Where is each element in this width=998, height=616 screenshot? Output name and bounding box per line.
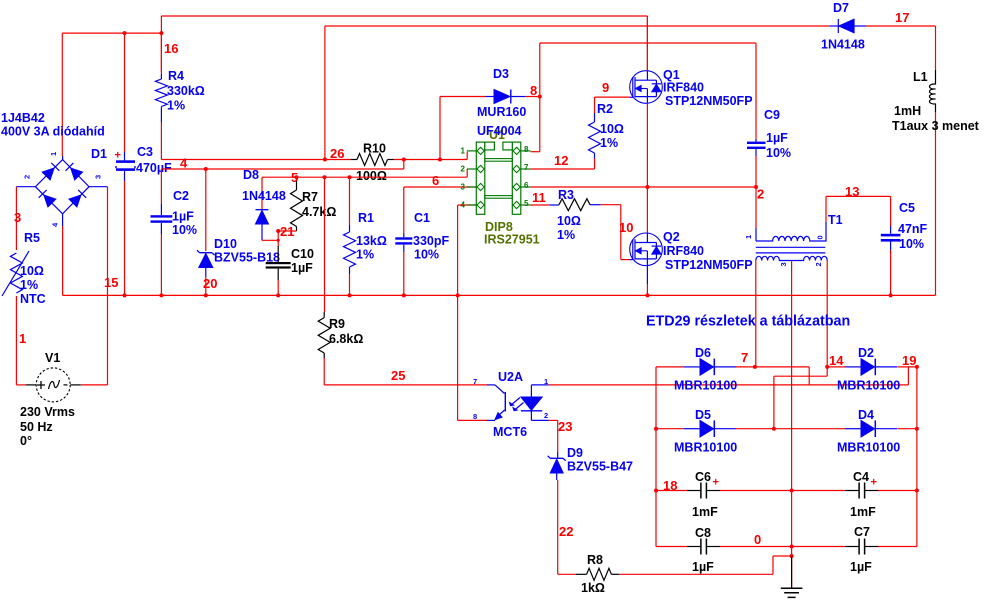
transistor Q1 <box>630 71 663 104</box>
svg-text:C7: C7 <box>854 525 870 539</box>
svg-text:5: 5 <box>524 199 529 208</box>
svg-text:R8: R8 <box>587 553 603 567</box>
svg-text:230 Vrms: 230 Vrms <box>20 405 75 419</box>
svg-text:1: 1 <box>544 377 548 386</box>
label D10 <box>214 237 237 251</box>
label D2 <box>858 346 874 360</box>
tolerance 10% C2 <box>172 223 197 237</box>
wire node 2 half-bridge output <box>531 185 765 202</box>
diode D2 <box>827 359 919 376</box>
wire T1 center tap to node 0 <box>791 261 793 588</box>
svg-text:MBR10100: MBR10100 <box>674 379 737 393</box>
svg-text:BZV55-B47: BZV55-B47 <box>567 460 633 474</box>
capacitor C8 <box>656 539 794 555</box>
wire node 19 from opto pin 1 to D2 cathode <box>549 367 909 385</box>
svg-text:D4: D4 <box>858 408 874 422</box>
svg-text:1: 1 <box>461 147 466 156</box>
svg-text:13: 13 <box>845 184 859 199</box>
value UF4004 <box>477 124 522 138</box>
label R1 <box>358 211 374 225</box>
label NTC <box>20 292 46 306</box>
svg-text:9: 9 <box>602 80 609 95</box>
tolerance 10% C5 <box>899 237 924 251</box>
label C8 <box>695 526 711 540</box>
polarity + for C4 <box>871 477 877 489</box>
svg-text:330pF: 330pF <box>413 234 449 248</box>
svg-text:Q2: Q2 <box>663 230 680 244</box>
value 330kΩ <box>167 84 205 98</box>
svg-text:D9: D9 <box>567 446 583 460</box>
label R9 <box>329 317 345 331</box>
capacitor C7 <box>792 539 917 555</box>
svg-text:STP12NM50FP: STP12NM50FP <box>665 258 753 272</box>
label Q1 <box>663 68 680 82</box>
label R10 <box>363 142 386 156</box>
svg-text:7: 7 <box>473 377 477 386</box>
label C7 <box>854 525 870 539</box>
diode D4 <box>845 420 919 437</box>
wire T1 secondary right to node 14 <box>825 261 829 369</box>
node 14 <box>829 353 844 368</box>
value 330pF <box>413 234 449 248</box>
label C10 <box>291 247 314 261</box>
bridge rectifier D1 <box>16 156 107 226</box>
label D4 <box>858 408 874 422</box>
svg-text:12: 12 <box>554 153 568 168</box>
label U2A <box>498 370 523 384</box>
diode D6 <box>656 359 755 376</box>
svg-text:L1: L1 <box>913 70 928 84</box>
value 470µF <box>136 161 172 175</box>
svg-text:1: 1 <box>49 152 58 156</box>
resistor R5 NTC <box>2 251 29 296</box>
DIP8 pin numbers <box>461 145 529 210</box>
label C4 <box>853 470 869 484</box>
node 5 <box>291 170 298 185</box>
svg-text:D5: D5 <box>695 408 711 422</box>
wire node 26 row into DIP pin 1 <box>161 152 467 162</box>
capacitor C2 <box>151 204 173 295</box>
node 10 <box>619 220 633 235</box>
value 1mF C4 <box>850 505 876 519</box>
transformer T1 primary winding <box>756 196 826 241</box>
zener diode D10 <box>197 169 215 295</box>
label Q2 <box>663 230 680 244</box>
transformer T1 secondary windings <box>756 256 827 260</box>
label 400V 3A diodahid <box>1 125 105 139</box>
wire node 15 bottom rail <box>63 226 936 295</box>
label ETD29 reszletek a tablazatban <box>646 314 850 330</box>
tolerance 1% R1 <box>356 248 374 262</box>
wire T1 secondary left to node 7 <box>753 261 757 369</box>
node 6 <box>432 173 439 188</box>
svg-text:0°: 0° <box>20 434 32 448</box>
svg-text:U2A: U2A <box>498 370 523 384</box>
value 13kΩ <box>356 234 387 248</box>
svg-text:IRF840: IRF840 <box>663 244 704 258</box>
wire node 4 to D3 to node 8 <box>440 97 540 160</box>
svg-text:8: 8 <box>524 145 529 154</box>
svg-text:4: 4 <box>461 201 466 210</box>
node 20 <box>203 276 217 291</box>
node 15 <box>104 275 118 290</box>
label R3 <box>558 188 574 202</box>
svg-text:1%: 1% <box>557 228 575 242</box>
value 10Ω R3 <box>557 214 581 228</box>
svg-text:4: 4 <box>180 156 188 171</box>
transistor Q2 <box>630 233 663 266</box>
label IRS27951 <box>484 233 540 247</box>
svg-text:330kΩ: 330kΩ <box>167 84 205 98</box>
svg-text:1%: 1% <box>600 136 618 150</box>
label R2 <box>597 102 613 116</box>
svg-text:47nF: 47nF <box>898 222 928 236</box>
svg-text:1µF: 1µF <box>291 261 313 275</box>
value 1mH <box>894 104 921 118</box>
svg-text:1µF: 1µF <box>766 131 788 145</box>
svg-text:4.7kΩ: 4.7kΩ <box>302 205 336 219</box>
svg-text:C5: C5 <box>899 201 915 215</box>
label D9 <box>567 446 583 460</box>
svg-text:15: 15 <box>104 275 118 290</box>
svg-text:C2: C2 <box>173 189 189 203</box>
svg-text:5: 5 <box>291 170 298 185</box>
svg-text:R7: R7 <box>302 190 318 204</box>
node 11 <box>532 190 546 205</box>
label STP12NM50FP Q1 <box>665 94 753 108</box>
svg-text:3: 3 <box>14 210 21 225</box>
wire node 13 <box>826 184 891 199</box>
capacitor C6 <box>656 483 794 499</box>
wire node 18 left rail <box>654 367 658 547</box>
value 50 Hz <box>20 420 53 434</box>
value 1µF C10 <box>291 261 313 275</box>
capacitor C3 <box>116 33 135 295</box>
value 47nF <box>898 222 928 236</box>
svg-text:C4: C4 <box>853 470 869 484</box>
svg-text:MBR10100: MBR10100 <box>674 441 737 455</box>
label T1aux 3 menet <box>892 119 980 133</box>
node 16 <box>164 41 178 56</box>
svg-text:1µF: 1µF <box>850 560 872 574</box>
node 26 <box>330 146 344 161</box>
svg-text:22: 22 <box>559 524 573 539</box>
svg-text:11: 11 <box>532 190 546 205</box>
svg-text:10Ω: 10Ω <box>20 264 44 278</box>
resistor R7 <box>278 177 302 231</box>
svg-text:16: 16 <box>164 41 178 56</box>
svg-text:1N4148: 1N4148 <box>821 38 865 52</box>
value 4.7kΩ <box>302 205 336 219</box>
label D3 <box>493 67 509 81</box>
svg-text:10%: 10% <box>899 237 924 251</box>
svg-text:2: 2 <box>544 411 548 420</box>
resistor R8 and wire to node 0 <box>558 554 794 580</box>
node 9 <box>602 80 609 95</box>
svg-text:MBR10100: MBR10100 <box>837 441 900 455</box>
value 1µF C9 <box>766 131 788 145</box>
value IRF840 Q2 <box>663 244 704 258</box>
tolerance 1% <box>20 278 38 292</box>
svg-text:8: 8 <box>473 412 477 421</box>
node 1 <box>19 331 26 346</box>
polarity + for C6 <box>713 477 719 489</box>
node 0 <box>754 532 761 547</box>
svg-text:+: + <box>713 477 719 489</box>
wire node 12 pin 7 to R2 <box>531 153 595 169</box>
label C3 <box>137 145 153 159</box>
svg-text:100Ω: 100Ω <box>356 169 387 183</box>
diode D7 <box>830 19 866 33</box>
svg-text:1J4B42: 1J4B42 <box>1 111 45 125</box>
capacitor C5 <box>881 196 901 295</box>
svg-text:1%: 1% <box>356 248 374 262</box>
svg-text:2: 2 <box>461 165 466 174</box>
svg-text:R2: R2 <box>597 102 613 116</box>
svg-text:1: 1 <box>19 331 26 346</box>
svg-text:T1aux 3 menet: T1aux 3 menet <box>892 119 980 133</box>
value MBR10100 D5 <box>674 441 737 455</box>
label STP12NM50FP Q2 <box>665 258 753 272</box>
capacitor C10 <box>266 231 291 295</box>
wire DIP pin 4 down to opto pin 8 <box>458 205 487 420</box>
diode D5 <box>654 420 845 437</box>
wire node 2 to T1 primary <box>755 187 757 241</box>
bridge pin numbers <box>23 152 103 227</box>
value 230 Vrms <box>20 405 75 419</box>
svg-text:R4: R4 <box>168 69 184 83</box>
label R4 <box>168 69 184 83</box>
svg-text:R9: R9 <box>329 317 345 331</box>
tolerance 1% R4 <box>167 99 185 113</box>
svg-text:D8: D8 <box>243 168 259 182</box>
svg-text:NTC: NTC <box>20 292 46 306</box>
tolerance 1% R2 <box>600 136 618 150</box>
svg-text:D3: D3 <box>493 67 509 81</box>
value 10Ω R2 <box>600 122 624 136</box>
svg-text:21: 21 <box>280 224 294 239</box>
svg-text:1%: 1% <box>167 99 185 113</box>
value 10Ω <box>20 264 44 278</box>
svg-text:C3: C3 <box>137 145 153 159</box>
op-amp IC U1 DIP8 body <box>467 142 531 214</box>
value 1mF C6 <box>692 505 718 519</box>
svg-text:10%: 10% <box>172 223 197 237</box>
wire Q1 source to Q2 drain node 2 <box>645 103 649 233</box>
wire node 4 row C2 to R10 right <box>161 160 403 205</box>
value 1µF C7 <box>850 560 872 574</box>
svg-text:6: 6 <box>432 173 439 188</box>
svg-text:3: 3 <box>779 262 788 266</box>
svg-text:2: 2 <box>23 175 32 179</box>
value 100Ω <box>356 169 387 183</box>
label C6 <box>695 470 711 484</box>
transformer pin numbers <box>744 235 825 267</box>
svg-text:1mF: 1mF <box>692 505 718 519</box>
svg-text:400V 3A diódahíd: 400V 3A diódahíd <box>1 125 105 139</box>
svg-text:1N4148: 1N4148 <box>242 189 286 203</box>
optocoupler U2A <box>487 385 549 421</box>
svg-text:IRS27951: IRS27951 <box>484 233 540 247</box>
label C2 <box>173 189 189 203</box>
capacitor C9 <box>747 139 766 187</box>
svg-text:1µF: 1µF <box>692 560 714 574</box>
svg-text:2: 2 <box>757 187 764 202</box>
optocoupler pin numbers <box>473 377 548 421</box>
label DIP8 <box>485 220 513 234</box>
wire node 16 bridge output to R4/C3 <box>62 16 163 156</box>
label D7 <box>833 1 849 15</box>
wire node 14 jog to D5/D4 row <box>772 367 827 431</box>
value IRF840 Q1 <box>663 81 704 95</box>
label R8 <box>587 553 603 567</box>
value 1µF C2 <box>172 210 194 224</box>
value 1kΩ <box>581 581 605 595</box>
label U1 <box>489 128 505 142</box>
ground <box>781 556 803 597</box>
svg-text:20: 20 <box>203 276 217 291</box>
node 19 <box>902 353 916 368</box>
svg-text:MCT6: MCT6 <box>493 425 527 439</box>
svg-text:19: 19 <box>902 353 916 368</box>
junctions on node 15 rail <box>123 293 893 297</box>
capacitor C1 <box>395 187 412 295</box>
resistor R3 and wire to Q2 gate <box>531 199 631 260</box>
svg-text:23: 23 <box>558 419 572 434</box>
svg-text:13kΩ: 13kΩ <box>356 234 387 248</box>
svg-text:8: 8 <box>530 83 537 98</box>
capacitor C4 <box>792 483 917 499</box>
resistor R2 <box>589 97 631 158</box>
polarity + for C3 <box>115 150 121 162</box>
svg-text:7: 7 <box>741 350 748 365</box>
svg-text:17: 17 <box>895 10 909 25</box>
label D5 <box>695 408 711 422</box>
diode D3 <box>486 90 525 104</box>
value 1µF C8 <box>692 560 714 574</box>
svg-text:0: 0 <box>754 532 761 547</box>
svg-text:C9: C9 <box>764 108 780 122</box>
svg-text:1mF: 1mF <box>850 505 876 519</box>
phase 0° <box>20 434 32 448</box>
svg-text:10Ω: 10Ω <box>557 214 581 228</box>
wire node 3 / node 1 left column <box>15 187 17 385</box>
svg-text:1mH: 1mH <box>894 104 921 118</box>
tolerance 1% R3 <box>557 228 575 242</box>
wire node 8 rail to C9 top <box>540 43 756 152</box>
node 7 <box>741 350 748 365</box>
value MBR10100 D4 <box>837 441 900 455</box>
svg-text:1%: 1% <box>20 278 38 292</box>
value MBR10100 D2 <box>837 379 900 393</box>
svg-text:25: 25 <box>391 368 405 383</box>
wire node 19 right rail <box>915 367 919 547</box>
svg-text:50 Hz: 50 Hz <box>20 420 53 434</box>
value 1N4148 for D8 <box>242 189 286 203</box>
value 6.8kΩ <box>329 332 363 346</box>
svg-text:2: 2 <box>814 262 823 266</box>
label MCT6 <box>493 425 527 439</box>
tolerance 10% C1 <box>414 248 439 262</box>
svg-text:0: 0 <box>816 235 825 239</box>
label D6 <box>695 346 711 360</box>
tolerance 10% C9 <box>766 146 791 160</box>
wire node 22 <box>558 480 574 574</box>
svg-text:10Ω: 10Ω <box>600 122 624 136</box>
svg-text:UF4004: UF4004 <box>477 124 522 138</box>
label R7 <box>302 190 318 204</box>
svg-text:C6: C6 <box>695 470 711 484</box>
wire node 26 top rail through D7 to L1 <box>325 26 936 160</box>
svg-text:R1: R1 <box>358 211 374 225</box>
wire Q2 source to rail <box>646 266 648 296</box>
svg-text:V1: V1 <box>45 351 60 365</box>
label R5 <box>24 231 40 245</box>
svg-text:6: 6 <box>524 181 529 190</box>
svg-text:C1: C1 <box>414 211 430 225</box>
svg-text:D7: D7 <box>833 1 849 15</box>
svg-text:10%: 10% <box>766 146 791 160</box>
label D8 <box>243 168 259 182</box>
svg-text:D2: D2 <box>858 346 874 360</box>
diode D8 <box>256 210 280 242</box>
svg-text:MBR10100: MBR10100 <box>837 379 900 393</box>
resistor R9 and wire node 25 to opto <box>318 177 487 385</box>
svg-text:10%: 10% <box>414 248 439 262</box>
svg-text:T1: T1 <box>828 213 843 227</box>
wire node 7 jog <box>755 367 809 385</box>
svg-text:+: + <box>115 150 121 162</box>
resistor R1 <box>344 177 356 295</box>
wire node 5 row into DIP pin 2 <box>262 169 467 210</box>
label L1 <box>913 70 928 84</box>
svg-text:1kΩ: 1kΩ <box>581 581 605 595</box>
node 17 <box>895 10 909 25</box>
zener diode D9 <box>548 452 566 480</box>
label MUR160 <box>477 105 526 119</box>
svg-text:D6: D6 <box>695 346 711 360</box>
label C1 <box>414 211 430 225</box>
label C9 <box>764 108 780 122</box>
svg-text:C8: C8 <box>695 526 711 540</box>
value 1N4148 for D7 <box>821 38 865 52</box>
value MBR10100 D6 <box>674 379 737 393</box>
node 21 <box>276 224 294 239</box>
node 25 <box>391 368 405 383</box>
transformer T1 core <box>756 247 826 253</box>
svg-text:D10: D10 <box>214 237 237 251</box>
label D1 <box>91 147 107 161</box>
svg-text:D1: D1 <box>91 147 107 161</box>
svg-text:R3: R3 <box>558 188 574 202</box>
node 3 <box>14 210 21 225</box>
svg-text:ETD29 részletek a táblázatban: ETD29 részletek a táblázatban <box>646 314 850 330</box>
value BZV55-B18 <box>214 251 280 265</box>
wire Q1 drain <box>646 16 648 71</box>
resistor R10 <box>351 154 394 166</box>
label 1J4B42 <box>1 111 45 125</box>
inductor L1 <box>930 70 936 295</box>
svg-text:470µF: 470µF <box>136 161 172 175</box>
value BZV55-B47 <box>567 460 633 474</box>
svg-text:14: 14 <box>829 353 844 368</box>
svg-text:STP12NM50FP: STP12NM50FP <box>665 94 753 108</box>
svg-text:R5: R5 <box>24 231 40 245</box>
label C5 <box>899 201 915 215</box>
svg-text:26: 26 <box>330 146 344 161</box>
wire V1 to bridge <box>16 187 107 385</box>
wire DIP pin 8 to node 8 <box>530 83 542 152</box>
